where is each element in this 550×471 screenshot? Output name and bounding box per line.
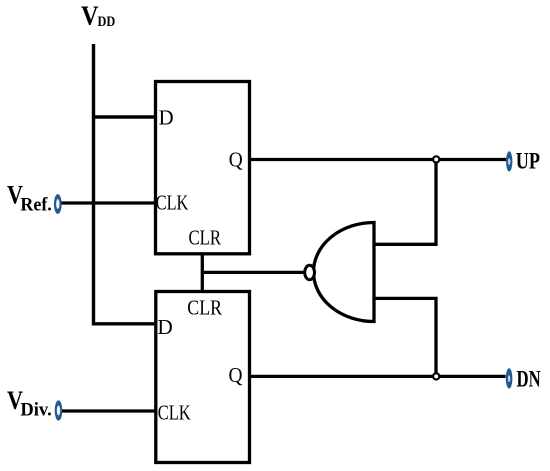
wire U2 Q to DN: [250, 375, 506, 378]
D flip-flop U1 body: [156, 82, 250, 254]
wire UP node to U3 top input: [374, 160, 436, 245]
node junction at UP: [433, 156, 439, 162]
wire VRef to CLK of FF1: [62, 201, 157, 204]
nand gate U3 output bubble: [305, 265, 315, 279]
wire U1 CLR pin to U2 CLR pin: [201, 254, 204, 292]
svg-text:CLR: CLR: [187, 296, 222, 320]
svg-text:Q: Q: [229, 363, 243, 387]
port VRef terminal oval: [54, 194, 62, 214]
svg-text:Div.: Div.: [20, 400, 51, 421]
svg-text:D: D: [159, 106, 174, 130]
svg-text:DN: DN: [517, 367, 541, 392]
port DN terminal oval: [506, 368, 513, 388]
nand gate U3 body: [314, 223, 375, 322]
port VDiv terminal oval: [55, 400, 63, 420]
wire VDD rail vertical with corner to D of FF2: [94, 44, 157, 324]
port VDiv label: [7, 386, 52, 421]
wire VDiv to CLK of FF2: [62, 409, 156, 412]
svg-text:UP: UP: [516, 149, 540, 174]
wire U3 output to CLR net: [202, 271, 304, 274]
svg-text:DD: DD: [98, 14, 116, 30]
port VRef label: [7, 181, 52, 216]
wire DN node to U3 bottom input: [374, 298, 436, 376]
svg-text:D: D: [157, 315, 172, 339]
node junction at DN: [433, 373, 439, 379]
D flip-flop U2 body: [156, 292, 250, 463]
svg-text:CLK: CLK: [158, 401, 191, 425]
wire VDD to D of FF1: [92, 115, 156, 118]
port UP terminal oval: [506, 151, 512, 171]
wire U1 Q to UP: [250, 158, 507, 161]
svg-text:V: V: [81, 1, 99, 31]
net VDD label: [81, 1, 115, 31]
svg-text:Ref.: Ref.: [20, 195, 51, 216]
svg-text:Q: Q: [229, 148, 243, 172]
svg-text:CLR: CLR: [189, 226, 222, 250]
svg-text:CLK: CLK: [156, 191, 189, 215]
